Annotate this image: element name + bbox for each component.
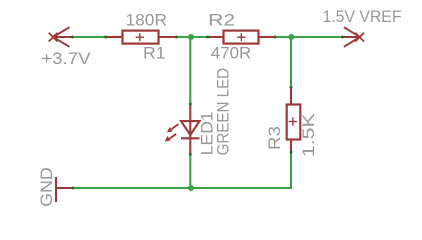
svg-text:R2: R2	[208, 12, 235, 30]
svg-text:180R: 180R	[126, 12, 168, 30]
svg-text:1.5V VREF: 1.5V VREF	[323, 8, 402, 26]
svg-text:R3: R3	[266, 126, 284, 150]
svg-text:GREEN LED: GREEN LED	[215, 68, 233, 156]
svg-text:1.5K: 1.5K	[300, 113, 318, 157]
svg-text:470R: 470R	[211, 44, 252, 62]
svg-text:R1: R1	[143, 45, 166, 63]
svg-text:+3.7V: +3.7V	[41, 50, 90, 68]
svg-text:GND: GND	[38, 167, 56, 207]
